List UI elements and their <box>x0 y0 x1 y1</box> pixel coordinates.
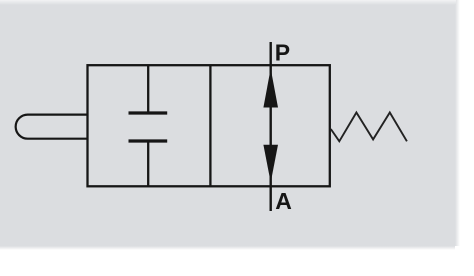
arrowhead up <box>263 69 278 108</box>
blocked port bar (bottom) <box>129 139 168 142</box>
plunger actuator (push rod) <box>16 115 88 139</box>
svg-text:P: P <box>275 40 290 66</box>
blocked port stub (bottom) <box>147 141 149 186</box>
blocked port bar (top) <box>129 111 168 114</box>
return spring <box>331 113 407 142</box>
blocked port stub (top) <box>147 65 149 113</box>
position divider line <box>209 65 211 186</box>
valve body box <box>88 65 330 186</box>
flow path line P to A <box>270 42 272 211</box>
arrowhead down <box>263 145 278 183</box>
svg-text:A: A <box>275 188 292 214</box>
